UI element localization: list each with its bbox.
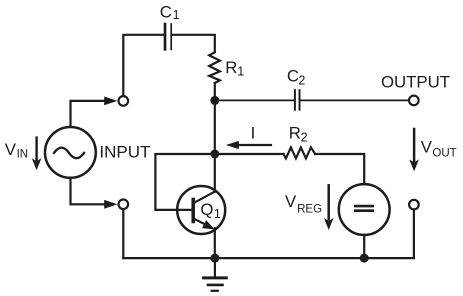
wire dc source bottom to rail [363, 235, 365, 258]
resistor R2 [284, 147, 316, 158]
junction dot dc source / rail [360, 254, 369, 263]
terminal input top [119, 96, 129, 106]
svg-text:IN: IN [17, 149, 29, 161]
svg-text:I: I [251, 124, 256, 143]
label C2 [287, 67, 306, 88]
capacitor C2 [295, 90, 300, 110]
transistor Q1 circle [177, 186, 225, 234]
ground [204, 258, 227, 291]
svg-text:1: 1 [173, 8, 180, 22]
svg-text:INPUT: INPUT [99, 143, 150, 162]
label R1 [225, 58, 244, 79]
transistor Q1 base bar [191, 200, 195, 222]
wire node A to C2 [215, 99, 294, 101]
wire bottom terminal to rail [122, 204, 124, 258]
svg-text:2: 2 [301, 131, 308, 145]
wire top-left C1 to top input terminal [123, 35, 164, 101]
svg-text:OUT: OUT [432, 148, 456, 160]
svg-text:C: C [287, 67, 299, 86]
wire ac bottom to bottom input terminal [71, 178, 107, 204]
label OUTPUT [381, 73, 450, 92]
svg-text:V: V [421, 137, 433, 156]
node B junction dot [210, 150, 219, 159]
label INPUT [99, 143, 150, 162]
svg-text:2: 2 [298, 73, 305, 87]
svg-text:Q: Q [200, 200, 213, 219]
capacitor C1 [165, 24, 171, 49]
terminal lower-right [409, 200, 419, 210]
label Q1 [200, 200, 221, 221]
wire lower-right terminal to rail [123, 205, 414, 259]
arrow I [226, 141, 271, 149]
svg-text:V: V [285, 192, 297, 211]
terminal OUTPUT [409, 96, 419, 106]
label V_IN [5, 140, 28, 161]
dc source = symbol [355, 206, 372, 211]
wire node B to R2 [215, 153, 284, 155]
terminal input bottom [119, 200, 129, 210]
arrow VREG [324, 185, 334, 230]
transistor Q1 emitter arrowhead [202, 220, 215, 229]
svg-text:OUTPUT: OUTPUT [381, 73, 450, 92]
transistor Q1 emitter diagonal [194, 219, 211, 228]
svg-text:V: V [5, 140, 17, 159]
wire R1 bottom / collector spine [214, 83, 216, 192]
transistor Q1 collector diagonal [194, 192, 215, 203]
ac source circle [45, 127, 96, 178]
svg-text:1: 1 [237, 65, 244, 79]
arrowhead into top terminal [104, 97, 117, 106]
dc source VREG circle [339, 184, 390, 235]
junction dot emitter / rail [210, 254, 219, 263]
svg-text:1: 1 [214, 207, 221, 221]
wire node B to base feed [155, 154, 214, 210]
arrow V_OUT [409, 129, 419, 171]
wire emitter to rail [214, 228, 216, 258]
svg-text:REG: REG [297, 204, 322, 216]
svg-text:R: R [225, 58, 237, 77]
arrowhead into bottom terminal [104, 200, 117, 209]
label C1 [160, 2, 180, 21]
resistor R1 [209, 52, 220, 83]
arrow V_IN [32, 138, 42, 171]
wire ac top to top input terminal [71, 101, 107, 127]
label V_OUT [421, 137, 457, 159]
label I [251, 124, 256, 143]
wire C1 right to R1 top [172, 35, 215, 52]
label VREG [285, 192, 322, 216]
node A junction dot [210, 96, 219, 105]
svg-text:R: R [289, 124, 301, 143]
wire C2 to OUTPUT terminal [300, 99, 413, 101]
ac source sine [54, 148, 84, 159]
label R2 [289, 124, 308, 145]
svg-text:C: C [160, 2, 172, 21]
wire R2 to DC source top [315, 154, 364, 184]
